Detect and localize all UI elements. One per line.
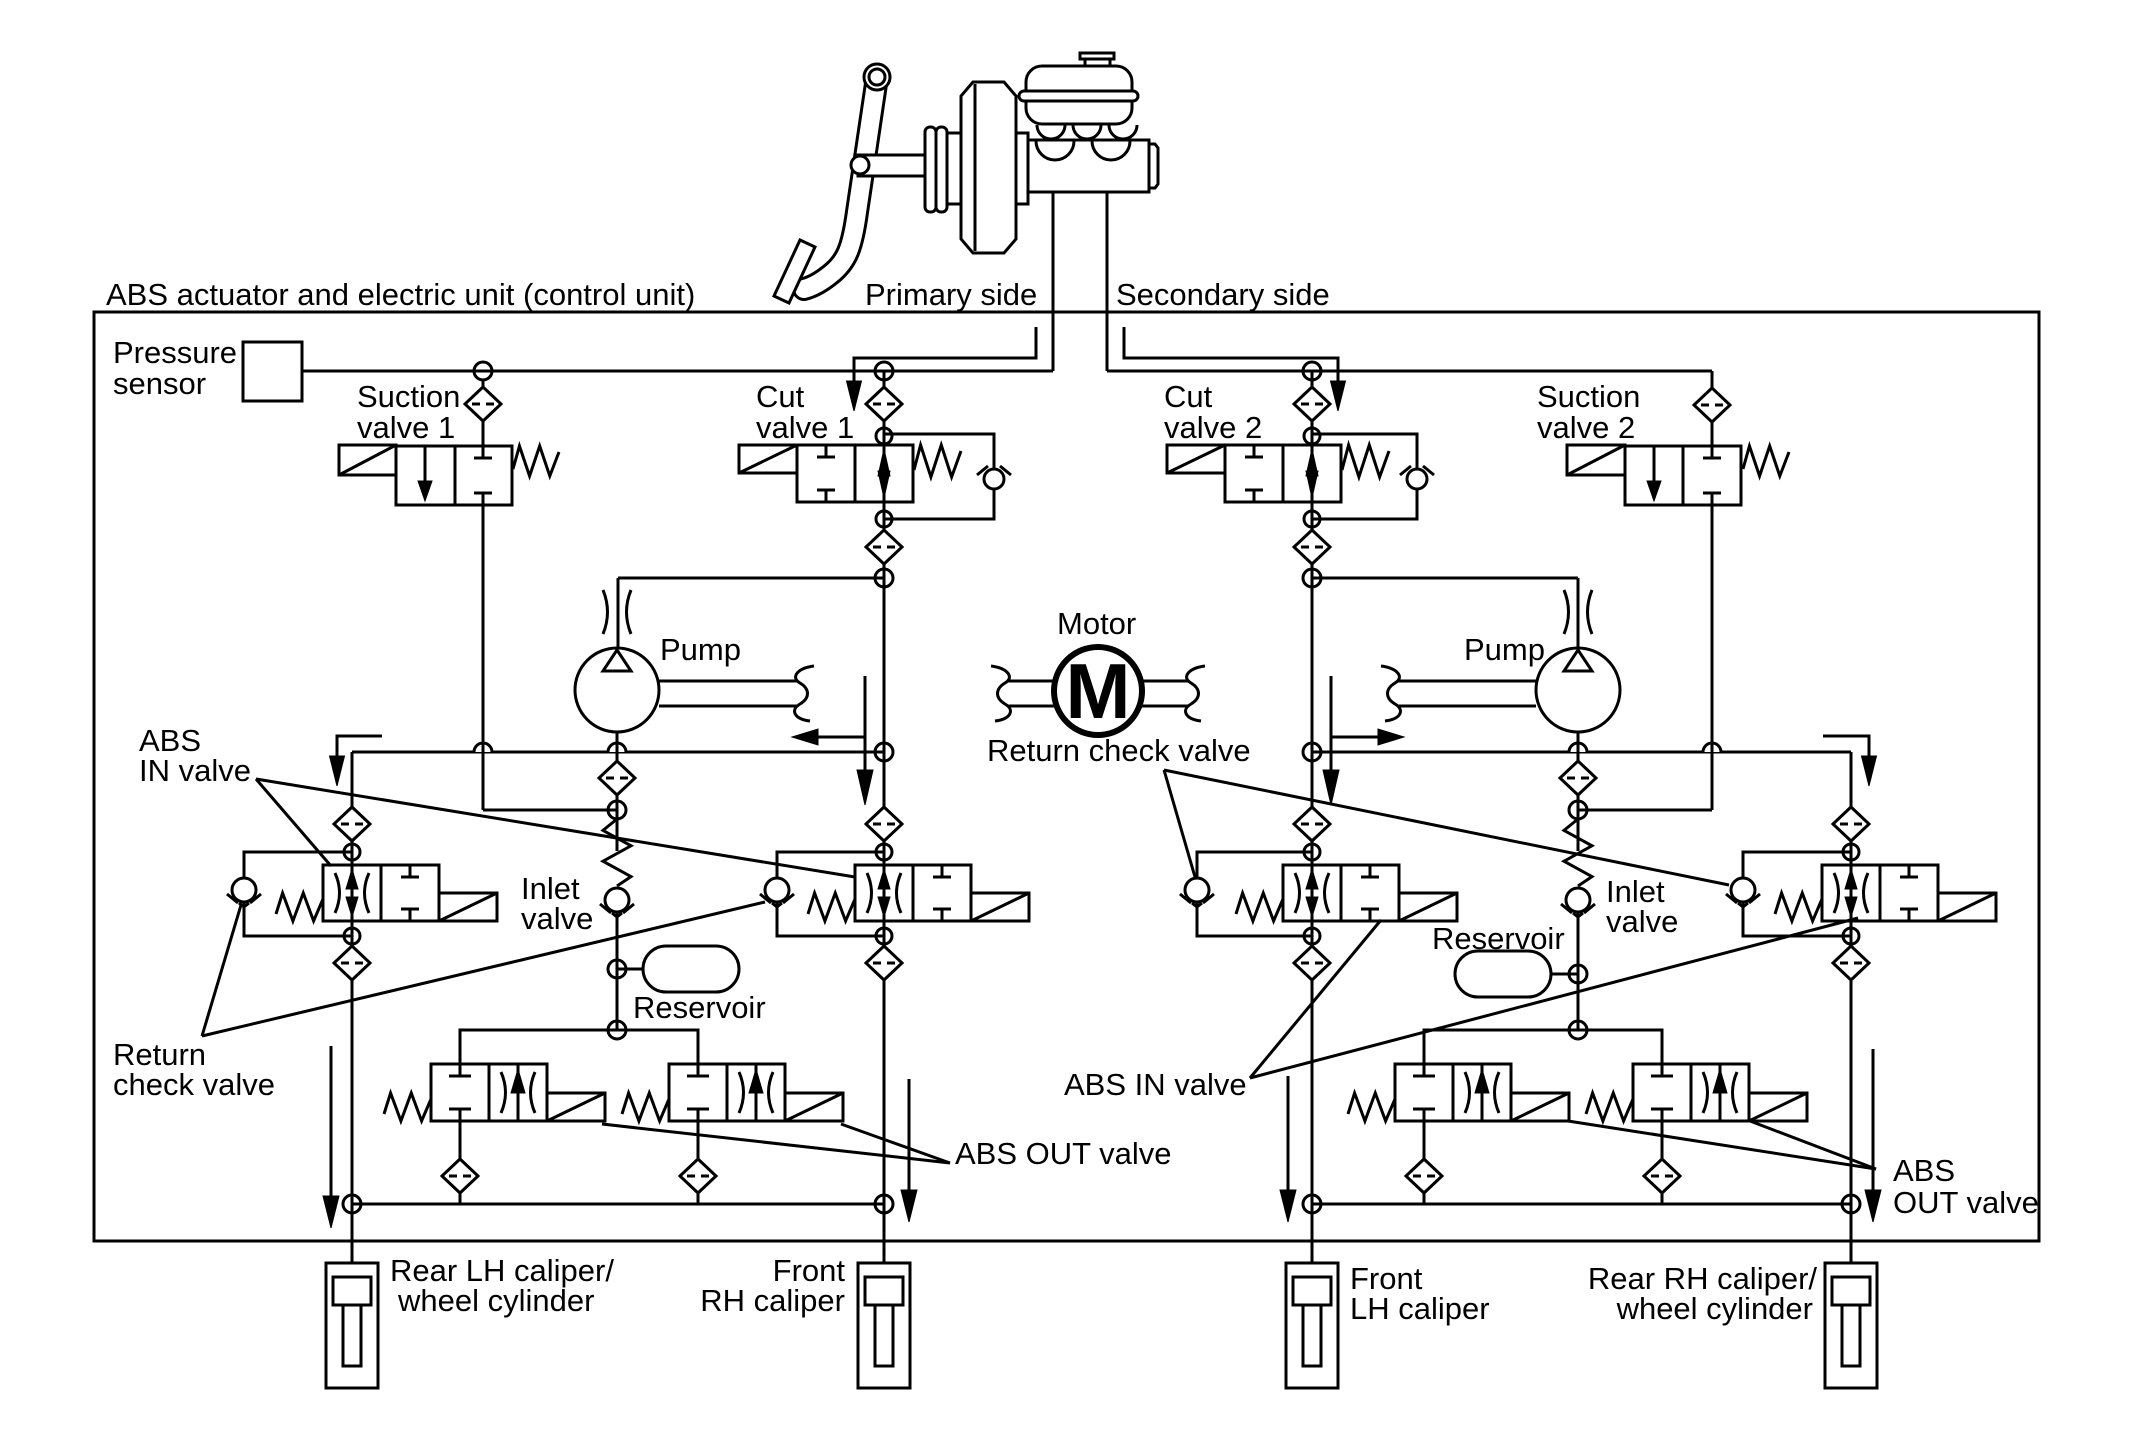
ABS IN valve front RH body	[855, 865, 971, 921]
svg-text:Suction: Suction	[357, 379, 460, 414]
hop left rail over pump 1 line	[608, 743, 626, 752]
node pump 2 outlet	[1569, 801, 1587, 819]
node cut valve 2 upper	[1304, 428, 1320, 444]
filter ABS OUT valve front RH	[680, 1159, 716, 1193]
label: Inlet valve (left)	[521, 871, 593, 936]
suction valve 2 open position arrow	[1647, 446, 1661, 501]
pump 2	[1536, 648, 1620, 732]
wire front RH caliper line	[883, 1204, 886, 1263]
svg-text:M: M	[1066, 647, 1131, 735]
label: Motor	[1057, 606, 1136, 641]
svg-text:ABS: ABS	[1893, 1153, 1955, 1188]
filter ABS IN valve rear RH bottom	[1833, 946, 1869, 980]
pump 2 drive shaft	[1381, 666, 1536, 721]
reservoir 2	[1455, 951, 1551, 997]
node ABS IN valve front LH bottom	[1304, 928, 1320, 944]
wire cut valve 2 axis	[1311, 371, 1314, 752]
filter ABS IN valve front RH top	[866, 807, 902, 841]
return check valve at ABS IN valve rear LH	[227, 878, 261, 907]
svg-text:valve 1: valve 1	[756, 410, 854, 445]
return check valve at ABS IN valve rear RH	[1726, 878, 1760, 907]
suction valve 2 body	[1625, 446, 1741, 505]
reservoir tank	[1026, 66, 1132, 124]
filter ABS OUT valve rear LH	[442, 1159, 478, 1193]
cut valve 1 closed position	[817, 445, 835, 502]
node cut valve 1 lower	[876, 511, 892, 527]
ABS OUT valve rear LH closed position	[449, 1064, 471, 1121]
cut valve 1 bypass wire	[884, 434, 994, 519]
ABS IN valve front LH open position arrows	[1295, 865, 1329, 921]
label: Return check valve (center)	[987, 733, 1251, 768]
front RH caliper	[858, 1263, 910, 1388]
svg-text:Pressure: Pressure	[113, 335, 237, 370]
master cylinder body	[1028, 140, 1149, 192]
svg-text:Cut: Cut	[1164, 379, 1213, 414]
wire ABS OUT front LH outlet	[1423, 1121, 1426, 1204]
rear LH caliper wheel cylinder	[326, 1263, 378, 1388]
wire pump 1 outlet	[616, 732, 619, 810]
pump 1 drive shaft	[659, 666, 814, 721]
ABS IN valve front RH closed position	[933, 865, 951, 921]
flow arrow rear LH inlet	[330, 736, 383, 786]
reservoir cap	[1080, 53, 1114, 66]
label: Front LH caliper	[1350, 1261, 1490, 1326]
wire suction valve 2 axis	[1578, 421, 1712, 810]
node pump 1 outlet	[608, 801, 626, 819]
wire inlet valve 1 chain	[616, 810, 619, 1030]
ABS IN valve rear LH body	[323, 865, 439, 921]
brake pedal lever	[804, 77, 877, 289]
wire reservoir 2	[1551, 973, 1578, 976]
flow arrow rear LH caliper	[323, 1046, 339, 1228]
label: ABS IN valve (left)	[139, 723, 251, 788]
wire: right out rail	[1424, 1030, 1662, 1064]
node ABS IN valve rear RH top	[1843, 844, 1859, 860]
node ABS IN valve rear RH bottom	[1843, 928, 1859, 944]
label: Reservoir (left)	[633, 990, 766, 1025]
filter ABS IN valve front LH top	[1294, 807, 1330, 841]
flow arrow front RH caliper	[901, 1079, 917, 1222]
flow arrow right return rail	[1323, 676, 1404, 805]
svg-text:ABS IN valve: ABS IN valve	[1064, 1067, 1247, 1102]
ABS IN valve rear RH closed position	[1900, 865, 1918, 921]
hop left rail over suction valve 1 line	[474, 743, 492, 752]
flow arrow rear RH caliper	[1865, 1049, 1881, 1222]
ABS OUT valve front LH solenoid	[1511, 1093, 1569, 1121]
filter ABS OUT valve front LH	[1406, 1159, 1442, 1193]
return check valve at ABS IN valve front RH	[760, 878, 794, 907]
booster seal rings	[925, 127, 947, 212]
filter pump 1	[599, 761, 635, 795]
pump 1 inlet marks	[603, 590, 631, 634]
svg-text:valve: valve	[521, 901, 593, 936]
leader to ABS IN valve rear RH	[1250, 918, 1858, 1078]
leader to return check valve front RH	[202, 902, 765, 1036]
label: ABS actuator and electric unit (control unit)	[106, 277, 695, 312]
motor shaft right	[1142, 666, 1205, 721]
cut valve 2 body	[1225, 445, 1341, 502]
ABS OUT valve rear LH spring	[384, 1093, 431, 1121]
node suction valve 1 inlet	[474, 362, 492, 380]
ABS IN valve front RH spring	[808, 893, 855, 921]
brake pedal pad	[774, 240, 815, 303]
node ABS IN valve front RH bottom	[876, 928, 892, 944]
svg-text:Cut: Cut	[756, 379, 805, 414]
ABS IN valve front LH closed position	[1361, 865, 1379, 921]
ABS IN valve front RH solenoid	[971, 893, 1029, 921]
label: Return check valve (bottom left)	[113, 1037, 275, 1102]
wire rear RH corner	[1850, 752, 1853, 865]
wire front LH caliper line	[1311, 1204, 1314, 1263]
wire ABS OUT rear LH outlet	[459, 1121, 462, 1204]
leader to return check valve rear LH	[202, 905, 241, 1036]
leader to ABS OUT valve rear RH	[1750, 1121, 1876, 1169]
node cut valve 2 inlet	[1303, 362, 1321, 380]
node ABS IN valve rear LH top	[344, 844, 360, 860]
wire suction valve 1 axis	[483, 380, 617, 810]
reservoir 1	[643, 946, 739, 992]
suction valve 1 open position arrow	[418, 446, 432, 501]
label: Rear RH caliper/wheel cylinder	[1588, 1261, 1818, 1326]
ABS IN valve rear LH open position arrows	[335, 865, 369, 921]
flow arrow secondary side	[1124, 327, 1346, 411]
ABS IN valve rear RH body	[1822, 865, 1938, 921]
node front LH branch	[1303, 743, 1321, 761]
label: Inlet valve (right)	[1606, 874, 1678, 939]
svg-text:wheel cylinder: wheel cylinder	[1616, 1291, 1813, 1326]
ABS IN valve rear RH solenoid	[1938, 893, 1996, 921]
ABS OUT valve rear LH solenoid	[547, 1093, 605, 1121]
cut valve 2 solenoid	[1167, 445, 1225, 473]
label: Suction valve 1	[357, 379, 460, 445]
pedal push rod	[858, 155, 925, 176]
svg-text:LH caliper: LH caliper	[1350, 1291, 1490, 1326]
wire: secondary rail	[1107, 371, 1712, 389]
rear RH caliper wheel cylinder	[1825, 1263, 1877, 1388]
ABS IN valve front LH bypass wire	[1197, 852, 1312, 936]
svg-text:valve 1: valve 1	[357, 410, 455, 445]
wire: rear LH-front RH out rail	[352, 1203, 884, 1206]
node cut valve 2 lower	[1304, 511, 1320, 527]
brake booster	[961, 82, 1016, 253]
ABS IN valve front LH spring	[1236, 893, 1283, 921]
node ABS IN valve front RH top	[876, 844, 892, 860]
inlet valve 2 spring	[1564, 819, 1592, 886]
ABS OUT valve front LH spring	[1348, 1093, 1395, 1121]
node inlet valve 2 reservoir	[1569, 965, 1587, 983]
filter ABS OUT valve rear RH	[1644, 1159, 1680, 1193]
filter pump 2	[1560, 761, 1596, 795]
ABS OUT valve rear RH solenoid	[1749, 1093, 1807, 1121]
leader to ABS IN valve rear LH	[256, 779, 331, 866]
ABS OUT valve rear LH open position arrow	[501, 1064, 535, 1121]
inlet valve 1 spring	[603, 819, 631, 886]
wire: left return rail	[352, 751, 884, 754]
primary line	[1052, 192, 1055, 371]
hop right rail over pump 2 line	[1569, 743, 1587, 752]
node rear RH caliper line	[1842, 1195, 1860, 1213]
ABS IN valve rear RH spring	[1775, 893, 1822, 921]
wire rear LH outlet	[351, 921, 354, 1204]
filter cut valve 2 top	[1294, 387, 1330, 421]
svg-text:Pump: Pump	[660, 632, 741, 667]
svg-text:Reservoir: Reservoir	[633, 990, 766, 1025]
svg-text:valve 2: valve 2	[1164, 410, 1262, 445]
flow arrow left return rail	[792, 676, 873, 805]
front LH caliper	[1286, 1263, 1338, 1388]
cut valve 2 closed position	[1245, 445, 1263, 502]
label: ABS OUT valve (left)	[955, 1136, 1172, 1171]
label: Rear LH caliper/wheel cylinder	[390, 1253, 614, 1318]
suction valve 2 closed position	[1703, 446, 1721, 505]
wire rear RH outlet	[1850, 921, 1853, 1204]
label: ABS OUT valve (right)	[1893, 1153, 2039, 1220]
wire: left out rail	[460, 1030, 698, 1064]
svg-text:wheel cylinder: wheel cylinder	[397, 1283, 594, 1318]
svg-text:Secondary side: Secondary side	[1116, 277, 1330, 312]
wire cut valve 2 to pump 2	[1312, 578, 1578, 650]
cut valve 1 body	[797, 445, 913, 502]
node rear LH caliper line	[343, 1195, 361, 1213]
label: Suction valve 2	[1537, 379, 1640, 445]
node front RH branch	[875, 743, 893, 761]
ABS OUT valve rear RH body	[1633, 1064, 1749, 1121]
node front RH caliper line	[875, 1195, 893, 1213]
label: ABS IN valve (right)	[1064, 1067, 1247, 1102]
node ABS IN valve rear LH bottom	[344, 928, 360, 944]
svg-text:Motor: Motor	[1057, 606, 1136, 641]
wire ABS IN front RH drop	[883, 752, 886, 865]
wire pump 2 outlet	[1577, 732, 1580, 810]
svg-text:Suction: Suction	[1537, 379, 1640, 414]
ABS OUT valve front RH body	[669, 1064, 785, 1121]
leader to ABS OUT valve front LH	[1568, 1121, 1876, 1169]
cut valve 1 solenoid	[739, 445, 797, 473]
filter suction valve 2	[1694, 388, 1730, 422]
return check valve at ABS IN valve front LH	[1180, 878, 1214, 907]
pump 1	[575, 648, 659, 732]
svg-text:sensor: sensor	[113, 366, 206, 401]
wire rear RH caliper line	[1850, 1204, 1853, 1263]
svg-text:ABS OUT valve: ABS OUT valve	[955, 1136, 1172, 1171]
label: Front RH caliper	[700, 1253, 845, 1318]
filter cut valve 1 top	[866, 387, 902, 421]
suction valve 1 body	[396, 446, 512, 505]
node cut valve 1 outlet	[875, 569, 893, 587]
motor M1	[1054, 647, 1142, 735]
ABS OUT valve front RH spring	[622, 1093, 669, 1121]
secondary line	[1106, 192, 1109, 371]
filter ABS IN valve rear LH bottom	[334, 946, 370, 980]
ABS actuator enclosure border	[94, 312, 2039, 1241]
leader to ABS OUT valve front RH	[841, 1124, 950, 1163]
wire cut valve 1 axis	[883, 371, 886, 752]
label: Primary side	[865, 277, 1037, 312]
label: Reservoir (right)	[1432, 921, 1565, 956]
ABS OUT valve front RH solenoid	[785, 1093, 843, 1121]
leader to ABS OUT valve rear LH	[602, 1124, 950, 1163]
ABS OUT valve rear LH body	[431, 1064, 547, 1121]
svg-text:Primary side: Primary side	[865, 277, 1037, 312]
label: Cut valve 1	[756, 379, 854, 445]
node inlet valve 1 reservoir	[608, 960, 626, 978]
reservoir collar	[1019, 91, 1138, 101]
wire: front LH-rear RH out rail	[1312, 1203, 1851, 1206]
wire: primary rail	[302, 370, 1053, 373]
svg-text:RH caliper: RH caliper	[700, 1283, 845, 1318]
wire reservoir 1	[617, 968, 643, 971]
ABS IN valve rear LH bypass wire	[244, 852, 352, 936]
svg-text:ABS actuator and electric unit: ABS actuator and electric unit (control …	[106, 277, 695, 312]
inlet check valve 2	[1561, 888, 1595, 917]
ABS IN valve front RH open position arrows	[867, 865, 901, 921]
filter cut valve 1 bottom	[866, 530, 902, 564]
svg-text:OUT valve: OUT valve	[1893, 1185, 2039, 1220]
booster rod housing	[947, 133, 1028, 204]
filter ABS IN valve front RH bottom	[866, 946, 902, 980]
ABS OUT valve rear RH open position arrow	[1703, 1064, 1737, 1121]
suction valve 2 solenoid	[1567, 445, 1625, 475]
node cut valve 2 outlet	[1303, 569, 1321, 587]
label: Pressure sensor	[113, 335, 237, 401]
filter ABS IN valve rear LH top	[334, 807, 370, 841]
svg-text:valve: valve	[1606, 904, 1678, 939]
wire cut valve 1 to pump 1	[618, 578, 884, 650]
flow arrow rear RH inlet	[1823, 736, 1877, 786]
node inlet valve 1 out rail	[608, 1021, 626, 1039]
wire ABS OUT rear RH outlet	[1661, 1121, 1664, 1204]
filter ABS IN valve front LH bottom	[1294, 946, 1330, 980]
ABS OUT valve front RH closed position	[687, 1064, 709, 1121]
ABS OUT valve rear RH spring	[1586, 1093, 1633, 1121]
suction valve 1 closed position	[474, 446, 492, 505]
svg-text:valve 2: valve 2	[1537, 410, 1635, 445]
node ABS IN valve front LH top	[1304, 844, 1320, 860]
wire inlet valve 2 chain	[1577, 810, 1580, 1030]
wire front RH outlet	[883, 921, 886, 1204]
master cylinder ports	[1036, 125, 1137, 160]
node front LH caliper line	[1303, 1195, 1321, 1213]
ABS OUT valve rear RH closed position	[1651, 1064, 1673, 1121]
suction valve 1 solenoid	[339, 445, 396, 475]
leader to return check valve rear RH	[1164, 770, 1729, 885]
node cut valve 1 upper	[876, 428, 892, 444]
master cylinder end cap	[1149, 144, 1158, 188]
ABS IN valve rear LH solenoid	[439, 893, 497, 921]
ABS IN valve rear RH open position arrows	[1834, 865, 1868, 921]
inlet check valve 1	[600, 888, 634, 917]
wire: right return rail	[1312, 751, 1851, 754]
svg-text:Return check valve: Return check valve	[987, 733, 1251, 768]
pedal upper pivot	[864, 64, 890, 90]
node inlet valve 2 out rail	[1569, 1021, 1587, 1039]
pressure sensor	[243, 342, 302, 401]
ABS OUT valve front LH closed position	[1413, 1064, 1435, 1121]
leader to ABS IN valve front RH	[256, 779, 855, 877]
leader to ABS IN valve front LH	[1250, 920, 1381, 1078]
flow arrow primary side	[847, 327, 1037, 411]
label: Cut valve 2	[1164, 379, 1262, 445]
filter cut valve 2 bottom	[1294, 530, 1330, 564]
suction valve 1 spring	[513, 446, 559, 476]
ABS IN valve rear LH closed position	[401, 865, 419, 921]
svg-text:Pump: Pump	[1464, 632, 1545, 667]
ABS IN valve front LH solenoid	[1399, 893, 1457, 921]
wire ABS IN rear LH drop	[351, 752, 354, 865]
label: Pump (right)	[1464, 632, 1545, 667]
flow arrow front LH caliper	[1280, 1076, 1296, 1222]
leader to return check valve front LH	[1164, 770, 1195, 877]
wire front LH outlet	[1311, 921, 1314, 1204]
ABS OUT valve front LH open position arrow	[1465, 1064, 1499, 1121]
pedal lower pivot	[851, 156, 869, 174]
suction valve 2 spring	[1743, 446, 1789, 476]
ABS IN valve front LH body	[1283, 865, 1399, 921]
ABS OUT valve front LH body	[1395, 1064, 1511, 1121]
cut valve 2 bypass wire	[1312, 434, 1417, 519]
cut valve 1 spring	[914, 445, 961, 477]
label: Secondary side	[1116, 277, 1330, 312]
wire ABS IN front LH drop	[1311, 752, 1314, 865]
filter ABS IN valve rear RH top	[1833, 807, 1869, 841]
cut valve 1 bypass check valve	[977, 466, 1011, 489]
filter suction valve 1	[465, 387, 501, 421]
wire rear LH caliper line	[351, 1204, 354, 1263]
ABS IN valve rear LH spring	[276, 893, 323, 921]
pump 2 inlet marks	[1564, 590, 1592, 634]
svg-text:check valve: check valve	[113, 1067, 275, 1102]
ABS OUT valve front RH open position arrow	[739, 1064, 773, 1121]
cut valve 2 open position arrows	[1306, 445, 1318, 502]
motor shaft left	[991, 666, 1054, 721]
ABS IN valve front RH bypass wire	[777, 852, 884, 936]
cut valve 2 spring	[1342, 445, 1389, 477]
ABS IN valve rear RH bypass wire	[1743, 852, 1851, 936]
node cut valve 1 inlet	[875, 362, 893, 380]
label: Pump (left)	[660, 632, 741, 667]
svg-text:IN valve: IN valve	[139, 753, 251, 788]
wire ABS OUT front RH outlet	[697, 1121, 700, 1204]
hop right rail over suction valve 2 line	[1703, 743, 1721, 752]
cut valve 2 bypass check valve	[1400, 466, 1434, 489]
cut valve 1 open position arrows	[878, 445, 890, 502]
svg-text:Reservoir: Reservoir	[1432, 921, 1565, 956]
